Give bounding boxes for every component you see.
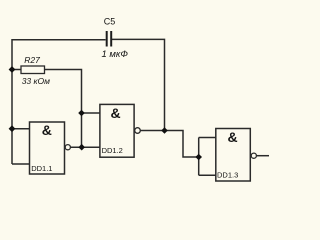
svg-text:R27: R27 — [24, 55, 40, 65]
svg-text:&: & — [228, 129, 238, 145]
junction node R27 left — [9, 66, 16, 73]
svg-text:DD1.3: DD1.3 — [217, 171, 238, 180]
svg-text:C5: C5 — [104, 17, 116, 27]
wire node to DD1.2 upper input — [82, 112, 101, 114]
svg-text:DD1.2: DD1.2 — [102, 146, 123, 155]
svg-text:&: & — [111, 105, 121, 121]
wire DD1.3 input tie — [199, 138, 216, 176]
junction node C5 to DD1.2 output — [161, 127, 168, 134]
NAND gate DD1.1 — [30, 122, 71, 174]
wire DD1.1 upper input — [12, 128, 30, 130]
svg-text:DD1.1: DD1.1 — [31, 164, 52, 173]
junction node DD1.1 upper input — [9, 125, 16, 132]
wire C5 right plate to top-right corner down to node at DD1.2 output — [111, 39, 165, 130]
wire left vertical + top horizontal to C5 left plate — [12, 40, 106, 164]
wire DD1.1 lower input — [12, 163, 30, 165]
svg-text:33 кОм: 33 кОм — [22, 76, 50, 86]
resistor R27 — [21, 66, 45, 74]
wire DD1.2 output to right — [141, 131, 199, 158]
NAND gate DD1.2 — [100, 104, 140, 157]
svg-text:&: & — [42, 122, 52, 138]
wire DD1.3 output — [257, 155, 270, 157]
wire R27 right lead down to DD1.1 output net — [45, 70, 82, 148]
capacitor C5 — [107, 31, 112, 47]
junction node DD1.2 upper input — [78, 110, 85, 117]
wire R27 lead left — [12, 69, 21, 71]
svg-text:1 мкФ: 1 мкФ — [102, 49, 129, 60]
NAND gate DD1.3 — [216, 129, 257, 182]
wire DD1.1 output to DD1.2 lower input — [70, 146, 101, 148]
junction node DD1.3 inputs — [195, 154, 202, 161]
junction node DD1.1 output net — [78, 144, 85, 151]
